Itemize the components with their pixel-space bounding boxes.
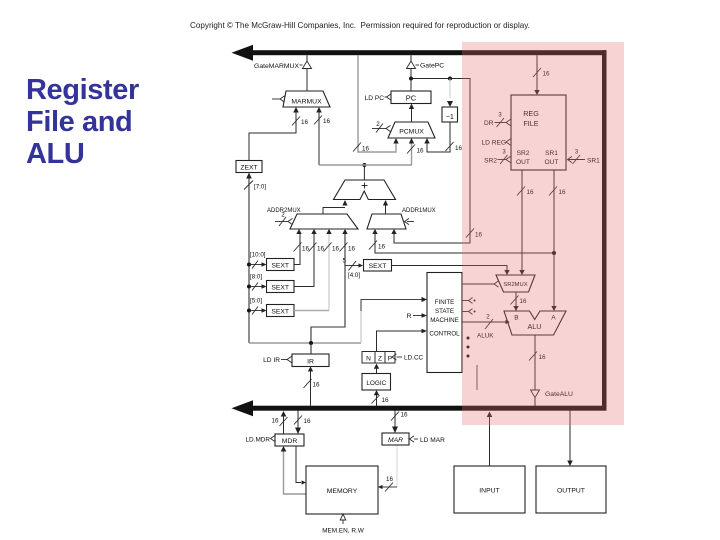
register Z <box>375 352 385 364</box>
svg-text:File and: File and <box>26 106 132 138</box>
wire PCMUX output to PC <box>409 104 414 123</box>
node IR junction <box>309 341 313 345</box>
svg-text:Copyright © The McGraw-Hill Co: Copyright © The McGraw-Hill Companies, I… <box>190 21 530 30</box>
svg-text:SEXT: SEXT <box>271 263 289 270</box>
svg-text:LOGIC: LOGIC <box>366 380 386 387</box>
ADDR1MUX select <box>405 218 415 224</box>
signal R into state machine <box>407 313 427 320</box>
signal LD IR <box>263 356 291 364</box>
svg-text:STATE: STATE <box>435 308 454 315</box>
svg-text:LD MAR: LD MAR <box>420 437 445 444</box>
svg-text:16: 16 <box>304 418 312 425</box>
signal LD.MDR <box>246 435 276 443</box>
wire bus tap to register file <box>533 55 550 95</box>
svg-text:OUTPUT: OUTPUT <box>557 488 585 495</box>
signal ALUK <box>462 314 510 340</box>
signal SR2 <box>484 150 510 165</box>
svg-text:SEXT: SEXT <box>271 309 289 316</box>
SR2MUX select from control <box>462 281 499 287</box>
wire SR1OUT to ALU <box>549 170 566 311</box>
register file REG FILE <box>511 95 566 170</box>
svg-text:[7:0]: [7:0] <box>254 184 266 191</box>
io box OUTPUT <box>536 466 606 513</box>
wire tap to SEXT 10:0 <box>249 261 267 269</box>
io box INPUT <box>454 466 525 513</box>
svg-text:MAR: MAR <box>388 437 403 444</box>
wire IR line to state machine <box>361 297 427 343</box>
signal SR1 <box>568 150 601 165</box>
gate GateMARMUX <box>254 55 311 91</box>
svg-text:16: 16 <box>323 118 331 125</box>
box SEXT 10:0 <box>250 252 294 271</box>
box SEXT 8:0 <box>250 274 294 293</box>
wire MDR to MEMORY <box>296 446 306 485</box>
mux SR2MUX <box>496 275 535 292</box>
svg-text:ADDR1MUX: ADDR1MUX <box>402 208 436 214</box>
wire tap to SEXT 8:0 <box>249 283 267 291</box>
svg-text:PC: PC <box>406 94 417 103</box>
svg-text:FINITE: FINITE <box>435 299 455 306</box>
wire adder output <box>363 165 365 180</box>
bus bottom segment <box>232 400 607 416</box>
wire adder rail to PCMUX <box>407 138 424 165</box>
adder <box>334 179 396 200</box>
node minus-one branch <box>448 77 452 81</box>
wire SEXT 5:0 output to ADDR2MUX <box>294 229 340 311</box>
gate GateALU <box>531 390 574 406</box>
wire SR1OUT to ADDR1MUX <box>369 229 554 253</box>
box SEXT 4:0 <box>364 260 392 272</box>
wire ADDR1MUX to adder <box>383 200 388 214</box>
slide title <box>26 74 139 170</box>
node adder output junction <box>362 163 366 167</box>
control box FINITE STATE MACHINE <box>427 273 462 373</box>
wire INPUT to bus <box>487 412 493 467</box>
mux MARMUX <box>283 91 330 107</box>
wire bus to MAR <box>391 411 408 434</box>
svg-text:LD.MDR: LD.MDR <box>246 437 271 444</box>
svg-text:MARMUX: MARMUX <box>291 99 322 106</box>
highlight overlay <box>462 42 624 425</box>
svg-text:16: 16 <box>317 246 325 253</box>
wire NZP to state machine <box>377 329 428 352</box>
signal LD MAR <box>410 436 446 444</box>
wire bus to MDR <box>294 411 311 435</box>
wire MAR to MEMORY <box>378 446 397 492</box>
svg-text:16: 16 <box>271 418 279 425</box>
ADDR2MUX select <box>275 212 293 227</box>
svg-text:16: 16 <box>362 146 370 153</box>
svg-text:N: N <box>366 356 371 363</box>
control output stub 2 <box>462 309 476 315</box>
mux PCMUX <box>388 122 435 138</box>
register P <box>385 352 395 364</box>
box SEXT 5:0 <box>250 298 294 317</box>
svg-text:MEMORY: MEMORY <box>327 488 358 495</box>
bus top segment <box>232 45 607 61</box>
svg-text:GatePC: GatePC <box>420 63 444 70</box>
svg-text:ZEXT: ZEXT <box>240 165 257 172</box>
register PC <box>391 91 431 104</box>
gate GatePC <box>407 55 445 69</box>
svg-text:16: 16 <box>301 119 309 126</box>
svg-text:−1: −1 <box>446 112 454 121</box>
wire SR2MUX output to ALU <box>511 292 528 311</box>
svg-text:MDR: MDR <box>282 438 298 445</box>
control output stub 1 <box>462 298 476 304</box>
svg-text:SEXT: SEXT <box>271 285 289 292</box>
signal LD REG <box>481 139 510 147</box>
wire ADDR2MUX to adder <box>323 200 348 214</box>
svg-text:16: 16 <box>455 145 463 152</box>
svg-text:SEXT: SEXT <box>369 263 387 270</box>
svg-text:16: 16 <box>401 412 409 419</box>
wire IR line to ADDR2MUX fourth input <box>311 229 356 343</box>
node tap 5:0 <box>247 309 251 313</box>
wire adder output rail <box>319 164 412 166</box>
register IR <box>292 354 329 367</box>
node SR1OUT branch <box>552 251 556 255</box>
register MAR <box>382 433 409 445</box>
signal DR <box>484 113 511 128</box>
wire MDR to bus <box>271 411 287 434</box>
wire IR to IR line <box>310 343 312 354</box>
svg-text:LD IR: LD IR <box>263 357 280 364</box>
wire SR2OUT to SR2MUX <box>517 170 534 275</box>
wire PC to ADDR1MUX <box>391 79 482 244</box>
wire PC to GatePC <box>410 69 412 92</box>
svg-text:[5:0]: [5:0] <box>250 298 262 305</box>
svg-text:5: 5 <box>342 258 346 265</box>
wire bus to IR <box>304 367 321 407</box>
node tap 8:0 <box>247 285 251 289</box>
svg-text:16: 16 <box>378 244 386 251</box>
svg-text:16: 16 <box>382 397 390 404</box>
control signals continuation wire <box>476 365 478 390</box>
wire bus to LOGIC <box>372 390 390 406</box>
svg-text:[10:0]: [10:0] <box>250 252 266 259</box>
signal LD.CC <box>392 354 424 362</box>
svg-text:16: 16 <box>386 476 393 483</box>
wire minus-one output to PCMUX <box>424 122 462 152</box>
box minus-one <box>442 107 458 122</box>
wire bus to OUTPUT <box>567 411 573 467</box>
signal MEM.EN R.W <box>322 514 365 535</box>
svg-text:[4:0]: [4:0] <box>348 272 360 279</box>
svg-text:MACHINE: MACHINE <box>430 317 459 324</box>
wire SEXT 10:0 output to ADDR2MUX <box>294 229 310 265</box>
logic box LOGIC <box>362 374 391 391</box>
svg-text:ALU: ALU <box>26 138 84 170</box>
wire branch to SEXT 4:0 <box>342 258 363 280</box>
register N <box>362 352 375 364</box>
wire ZEXT to MARMUX input <box>249 107 309 161</box>
wire ALU output to GateALU <box>529 335 546 390</box>
box ZEXT <box>236 161 262 179</box>
svg-text:CONTROL: CONTROL <box>429 331 460 338</box>
svg-text:INPUT: INPUT <box>479 488 499 495</box>
svg-text:LD PC: LD PC <box>365 95 385 102</box>
memory box MEMORY <box>306 466 378 514</box>
svg-text:16: 16 <box>302 246 310 253</box>
alu ALU <box>504 311 566 335</box>
svg-text:GateMARMUX: GateMARMUX <box>254 63 299 70</box>
svg-text:[8:0]: [8:0] <box>250 274 262 281</box>
svg-text:2: 2 <box>376 121 380 128</box>
svg-text:LD.CC: LD.CC <box>404 355 424 362</box>
node tap 10:0 <box>247 263 251 267</box>
wire SEXT 4:0 output to SR2MUX <box>392 266 510 276</box>
svg-text:16: 16 <box>348 246 356 253</box>
svg-text:Z: Z <box>378 356 382 363</box>
svg-text:16: 16 <box>313 382 321 389</box>
wire SEXT 8:0 output to ADDR2MUX <box>294 229 325 287</box>
wire LOGIC to NZP <box>374 364 379 374</box>
wire bus tap to PCMUX <box>353 55 399 152</box>
svg-text:2: 2 <box>281 212 285 219</box>
node PC branch <box>409 77 413 81</box>
wire adder line to MARMUX input <box>314 107 331 165</box>
wire branch to minus-one box <box>447 79 453 108</box>
mux ADDR1MUX <box>367 208 436 229</box>
svg-text:IR: IR <box>307 359 314 366</box>
mux ADDR2MUX <box>267 208 358 229</box>
bus right segment <box>602 50 607 410</box>
svg-text:+: + <box>361 179 368 193</box>
wire IR output line <box>249 342 361 344</box>
svg-text:Register: Register <box>26 74 139 106</box>
wire IR riser on left (feeds ZEXT and SEXT taps) <box>244 175 266 343</box>
wire MEMORY to MDR <box>281 446 306 494</box>
svg-text:R: R <box>407 313 412 320</box>
MARMUX select stub <box>272 96 285 102</box>
register MDR <box>275 434 304 446</box>
signal LD PC <box>365 94 391 102</box>
svg-text:PCMUX: PCMUX <box>399 129 424 136</box>
svg-text:MEM.EN, R.W: MEM.EN, R.W <box>322 528 365 535</box>
control ellipsis dots <box>467 337 470 358</box>
svg-text:16: 16 <box>417 148 425 155</box>
wire tap to SEXT 5:0 <box>249 307 267 315</box>
PCMUX select <box>372 121 391 133</box>
svg-text:16: 16 <box>332 246 340 253</box>
